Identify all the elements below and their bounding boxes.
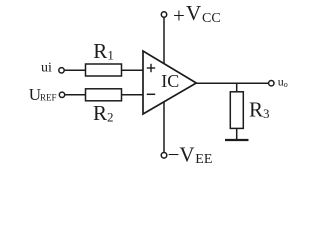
svg-text:R2: R2 [93,101,114,125]
svg-text:−VEE: −VEE [168,143,213,167]
svg-text:ui: ui [41,61,52,76]
wire UREF terminal to R2 [65,94,86,96]
terminal uo [269,81,274,86]
op-amp IC triangle [143,51,196,114]
terminal -VEE [161,153,167,159]
wire VCC vertical to op-amp top edge [163,17,165,64]
wire output node to R3 [236,83,238,92]
wire R2 to - input [122,94,144,96]
resistor R1 [86,64,122,76]
ground [225,139,249,141]
svg-text:+: + [173,4,185,28]
op-amp inverting - marking [147,93,155,95]
terminal +VCC [161,12,166,17]
terminal UREF [59,92,64,97]
terminal ui [59,68,64,73]
svg-text:IC: IC [161,71,179,91]
svg-text:R1: R1 [93,39,114,63]
wire R1 to + input [122,69,144,71]
resistor R2 [86,89,122,101]
wire VEE vertical from op-amp bottom edge [163,102,165,153]
wire ui terminal to R1 [64,69,85,71]
wire R3 to ground [236,128,238,140]
svg-text:R3: R3 [249,97,270,121]
op-amp noninverting + marking [147,64,155,72]
svg-text:uo: uo [278,75,288,89]
wire op-amp output [196,82,268,84]
svg-text:VCC: VCC [186,1,221,26]
svg-text:UREF: UREF [29,85,57,104]
resistor R3 [230,92,243,129]
